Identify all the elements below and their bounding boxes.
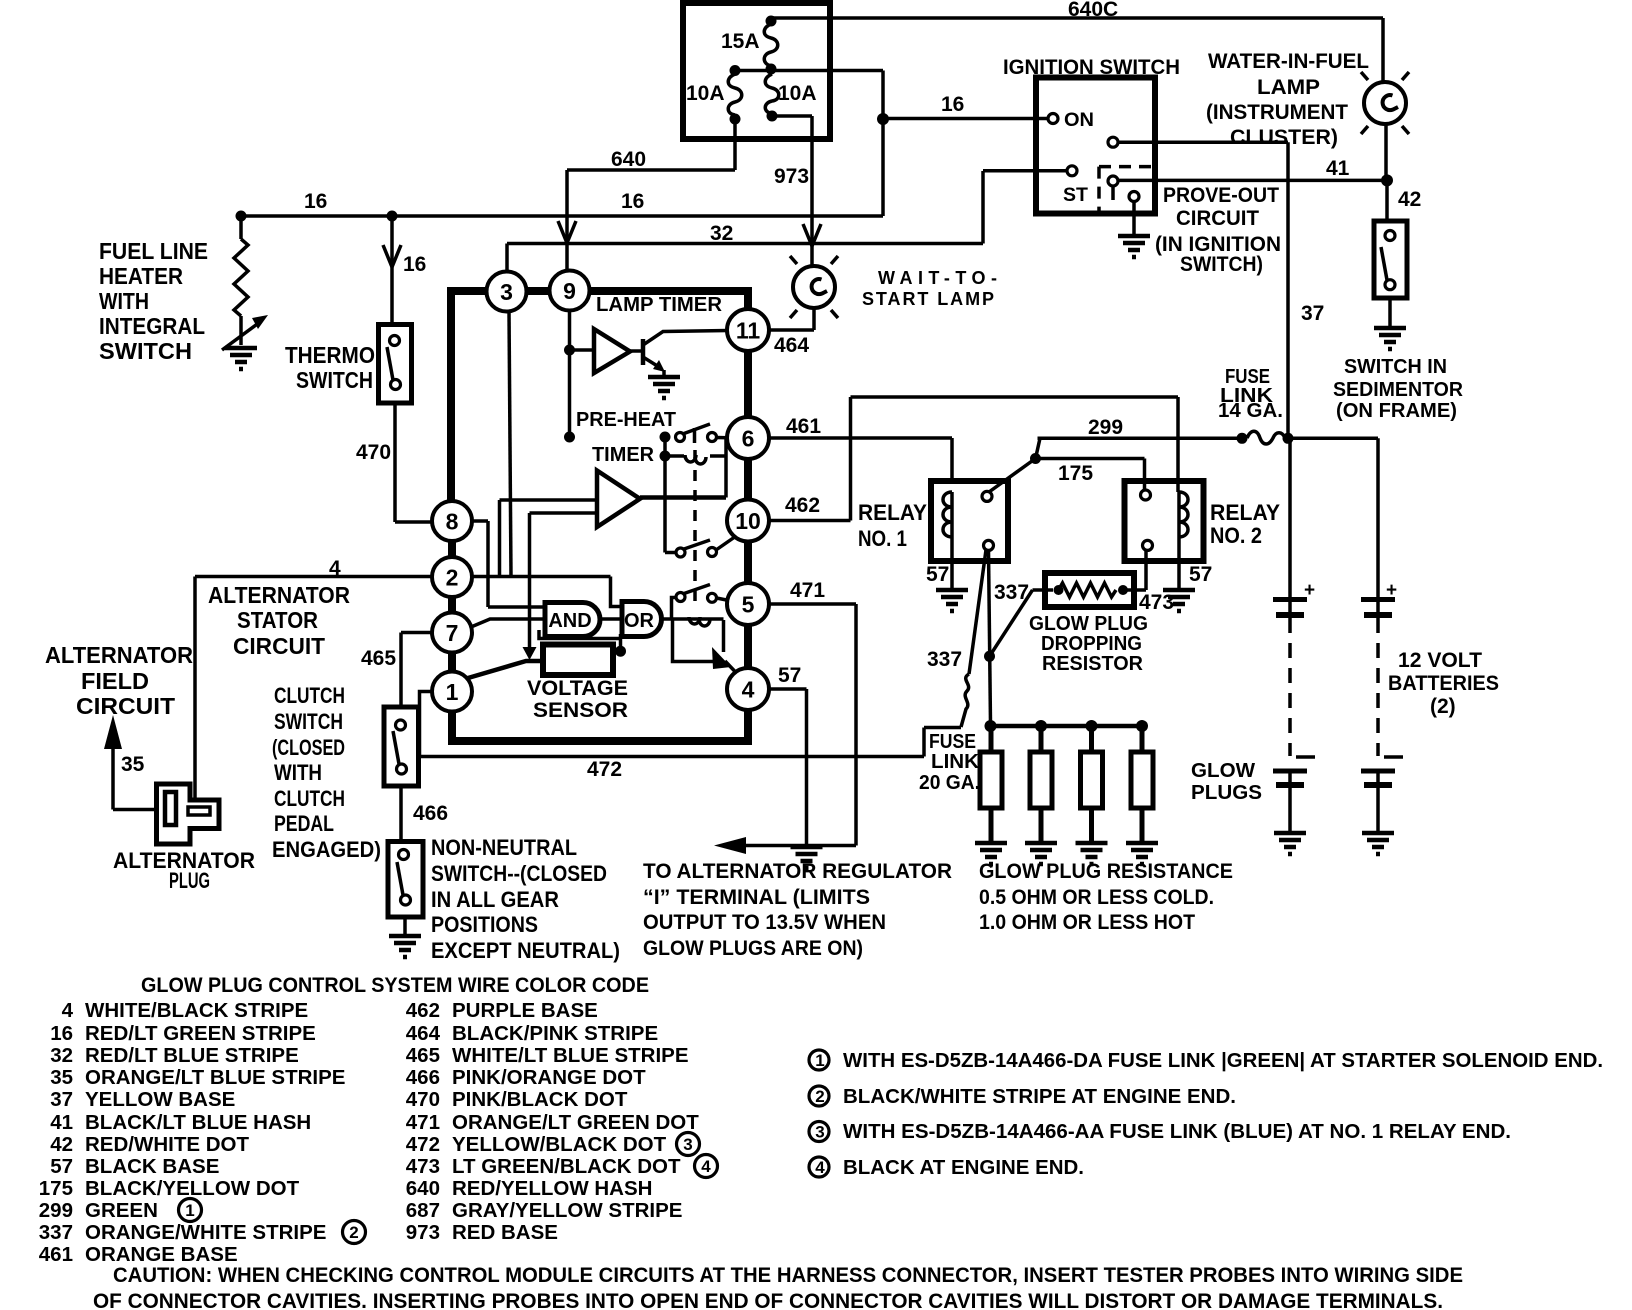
svg-text:FUSE: FUSE bbox=[929, 731, 976, 753]
svg-text:GLOW PLUG RESISTANCE: GLOW PLUG RESISTANCE bbox=[979, 860, 1233, 883]
svg-text:SWITCH: SWITCH bbox=[99, 338, 192, 364]
svg-text:THERMO: THERMO bbox=[285, 342, 375, 368]
svg-text:3: 3 bbox=[500, 279, 513, 305]
svg-text:RED/WHITE DOT: RED/WHITE DOT bbox=[85, 1133, 249, 1156]
svg-text:14 GA.: 14 GA. bbox=[1218, 400, 1283, 422]
svg-text:11: 11 bbox=[736, 318, 761, 344]
svg-text:PINK/ORANGE DOT: PINK/ORANGE DOT bbox=[452, 1066, 646, 1089]
svg-text:BLACK/LT BLUE HASH: BLACK/LT BLUE HASH bbox=[85, 1111, 311, 1134]
svg-text:16: 16 bbox=[403, 253, 426, 276]
svg-text:(INSTRUMENT: (INSTRUMENT bbox=[1206, 100, 1348, 124]
svg-text:EXCEPT NEUTRAL): EXCEPT NEUTRAL) bbox=[431, 938, 620, 963]
svg-text:IGNITION SWITCH: IGNITION SWITCH bbox=[1003, 55, 1180, 79]
svg-text:10A: 10A bbox=[778, 82, 817, 105]
svg-text:2: 2 bbox=[446, 565, 459, 591]
svg-text:YELLOW BASE: YELLOW BASE bbox=[85, 1088, 235, 1111]
svg-text:RED/LT GREEN STRIPE: RED/LT GREEN STRIPE bbox=[85, 1022, 316, 1045]
svg-text:0.5 OHM OR LESS COLD.: 0.5 OHM OR LESS COLD. bbox=[979, 886, 1214, 909]
svg-text:973: 973 bbox=[406, 1221, 440, 1244]
svg-text:START LAMP: START LAMP bbox=[862, 289, 994, 309]
svg-text:42: 42 bbox=[1398, 188, 1421, 211]
svg-text:299: 299 bbox=[39, 1199, 73, 1222]
svg-text:DROPPING: DROPPING bbox=[1041, 633, 1142, 655]
svg-text:PURPLE BASE: PURPLE BASE bbox=[452, 999, 598, 1022]
svg-text:SENSOR: SENSOR bbox=[533, 699, 628, 722]
svg-text:337: 337 bbox=[994, 581, 1029, 604]
svg-text:LINK: LINK bbox=[931, 751, 980, 773]
svg-text:FIELD: FIELD bbox=[81, 668, 149, 694]
svg-text:OR: OR bbox=[624, 610, 655, 632]
svg-text:GLOW PLUG: GLOW PLUG bbox=[1029, 613, 1148, 635]
svg-text:12 VOLT: 12 VOLT bbox=[1398, 649, 1482, 672]
svg-text:RED/YELLOW HASH: RED/YELLOW HASH bbox=[452, 1177, 652, 1200]
svg-text:VOLTAGE: VOLTAGE bbox=[527, 677, 628, 700]
svg-text:TO ALTERNATOR REGULATOR: TO ALTERNATOR REGULATOR bbox=[643, 860, 952, 883]
svg-text:BATTERIES: BATTERIES bbox=[1388, 672, 1499, 695]
svg-text:7: 7 bbox=[446, 620, 459, 646]
svg-text:470: 470 bbox=[356, 441, 391, 464]
svg-text:RESISTOR: RESISTOR bbox=[1042, 653, 1144, 675]
svg-text:640: 640 bbox=[611, 148, 646, 171]
svg-text:471: 471 bbox=[790, 579, 825, 602]
svg-text:PLUG: PLUG bbox=[169, 868, 210, 893]
svg-text:337: 337 bbox=[39, 1221, 73, 1244]
svg-text:175: 175 bbox=[1058, 462, 1093, 485]
svg-text:CIRCUIT: CIRCUIT bbox=[1176, 206, 1259, 230]
svg-text:464: 464 bbox=[406, 1022, 441, 1045]
svg-text:LAMP: LAMP bbox=[1257, 75, 1320, 99]
svg-text:RELAY: RELAY bbox=[1210, 500, 1280, 525]
svg-text:472: 472 bbox=[587, 758, 622, 781]
svg-text:470: 470 bbox=[406, 1088, 440, 1111]
svg-text:IN ALL GEAR: IN ALL GEAR bbox=[431, 887, 559, 912]
svg-text:175: 175 bbox=[39, 1177, 73, 1200]
svg-text:464: 464 bbox=[774, 334, 809, 357]
svg-text:HEATER: HEATER bbox=[99, 263, 183, 289]
svg-text:16: 16 bbox=[50, 1022, 73, 1045]
svg-text:2: 2 bbox=[349, 1223, 358, 1242]
svg-text:462: 462 bbox=[406, 999, 440, 1022]
svg-text:2: 2 bbox=[815, 1087, 824, 1106]
svg-text:SWITCH: SWITCH bbox=[296, 367, 373, 393]
svg-text:POSITIONS: POSITIONS bbox=[431, 912, 538, 937]
svg-text:BLACK/PINK STRIPE: BLACK/PINK STRIPE bbox=[452, 1022, 658, 1045]
svg-text:ON: ON bbox=[1064, 109, 1094, 131]
svg-text:10A: 10A bbox=[686, 82, 725, 105]
svg-text:3: 3 bbox=[815, 1123, 824, 1142]
svg-text:640C: 640C bbox=[1068, 0, 1118, 21]
svg-text:57: 57 bbox=[50, 1155, 73, 1178]
svg-text:337: 337 bbox=[927, 648, 962, 671]
svg-text:465: 465 bbox=[406, 1044, 440, 1067]
svg-text:1: 1 bbox=[446, 679, 459, 705]
svg-text:32: 32 bbox=[50, 1044, 73, 1067]
svg-text:4: 4 bbox=[62, 999, 74, 1022]
svg-text:(CLOSED: (CLOSED bbox=[272, 735, 345, 760]
svg-text:WHITE/LT BLUE STRIPE: WHITE/LT BLUE STRIPE bbox=[452, 1044, 689, 1067]
svg-text:(2): (2) bbox=[1430, 695, 1456, 718]
svg-text:4: 4 bbox=[701, 1157, 711, 1176]
svg-text:WHITE/BLACK STRIPE: WHITE/BLACK STRIPE bbox=[85, 999, 308, 1022]
svg-text:32: 32 bbox=[710, 222, 733, 245]
svg-text:41: 41 bbox=[1326, 157, 1350, 180]
svg-text:ORANGE BASE: ORANGE BASE bbox=[85, 1243, 238, 1266]
svg-text:35: 35 bbox=[50, 1066, 73, 1089]
svg-text:CIRCUIT: CIRCUIT bbox=[76, 693, 175, 719]
svg-text:SWITCH): SWITCH) bbox=[1180, 252, 1263, 276]
svg-text:SWITCH--(CLOSED: SWITCH--(CLOSED bbox=[431, 861, 607, 886]
svg-text:4: 4 bbox=[329, 557, 341, 580]
svg-text:465: 465 bbox=[361, 647, 396, 670]
svg-text:GLOW PLUG CONTROL SYSTEM WIRE: GLOW PLUG CONTROL SYSTEM WIRE COLOR CODE bbox=[141, 974, 649, 997]
svg-text:OUTPUT TO 13.5V WHEN: OUTPUT TO 13.5V WHEN bbox=[643, 911, 886, 934]
svg-text:4: 4 bbox=[742, 677, 755, 703]
svg-text:1: 1 bbox=[185, 1201, 194, 1220]
svg-text:“I” TERMINAL (LIMITS: “I” TERMINAL (LIMITS bbox=[643, 886, 870, 909]
svg-text:ALTERNATOR: ALTERNATOR bbox=[45, 642, 193, 668]
svg-text:299: 299 bbox=[1088, 416, 1123, 439]
svg-text:640: 640 bbox=[406, 1177, 440, 1200]
svg-text:973: 973 bbox=[774, 165, 809, 188]
svg-text:37: 37 bbox=[1301, 302, 1324, 325]
svg-text:YELLOW/BLACK DOT: YELLOW/BLACK DOT bbox=[452, 1133, 667, 1156]
svg-text:15A: 15A bbox=[721, 30, 760, 53]
svg-text:CLUSTER): CLUSTER) bbox=[1230, 125, 1338, 149]
svg-text:472: 472 bbox=[406, 1133, 440, 1156]
svg-text:ORANGE/LT GREEN DOT: ORANGE/LT GREEN DOT bbox=[452, 1111, 699, 1134]
svg-text:WITH: WITH bbox=[274, 760, 322, 785]
svg-text:BLACK BASE: BLACK BASE bbox=[85, 1155, 219, 1178]
svg-text:WATER-IN-FUEL: WATER-IN-FUEL bbox=[1208, 49, 1369, 73]
svg-text:1.0 OHM OR LESS HOT: 1.0 OHM OR LESS HOT bbox=[979, 911, 1195, 934]
svg-text:10: 10 bbox=[735, 508, 761, 534]
svg-text:4: 4 bbox=[815, 1158, 825, 1177]
svg-text:57: 57 bbox=[926, 563, 949, 586]
svg-text:RED/LT BLUE STRIPE: RED/LT BLUE STRIPE bbox=[85, 1044, 299, 1067]
svg-text:462: 462 bbox=[785, 494, 820, 517]
svg-text:42: 42 bbox=[50, 1133, 73, 1156]
svg-text:CAUTION: WHEN CHECKING CONTROL: CAUTION: WHEN CHECKING CONTROL MODULE CI… bbox=[113, 1264, 1463, 1287]
svg-text:37: 37 bbox=[50, 1088, 73, 1111]
svg-text:GLOW: GLOW bbox=[1191, 760, 1255, 782]
svg-text:473: 473 bbox=[1139, 591, 1174, 614]
svg-text:41: 41 bbox=[50, 1111, 73, 1134]
svg-text:ALTERNATOR: ALTERNATOR bbox=[208, 582, 350, 608]
svg-text:ST: ST bbox=[1063, 184, 1088, 206]
svg-text:LAMP TIMER: LAMP TIMER bbox=[596, 294, 723, 316]
svg-text:PINK/BLACK DOT: PINK/BLACK DOT bbox=[452, 1088, 628, 1111]
svg-text:WITH ES-D5ZB-14A466-DA FUSE LI: WITH ES-D5ZB-14A466-DA FUSE LINK |GREEN|… bbox=[843, 1049, 1603, 1072]
svg-text:461: 461 bbox=[39, 1243, 73, 1266]
svg-text:CLUTCH: CLUTCH bbox=[274, 786, 345, 811]
svg-text:GREEN: GREEN bbox=[85, 1199, 158, 1222]
svg-text:466: 466 bbox=[413, 802, 448, 825]
svg-text:STATOR: STATOR bbox=[237, 607, 318, 633]
svg-text:6: 6 bbox=[742, 426, 755, 452]
svg-text:NO. 1: NO. 1 bbox=[858, 526, 907, 551]
svg-text:PEDAL: PEDAL bbox=[274, 811, 334, 836]
svg-text:WITH: WITH bbox=[99, 288, 149, 314]
svg-text:PRE-HEAT: PRE-HEAT bbox=[576, 409, 676, 431]
svg-text:BLACK/YELLOW DOT: BLACK/YELLOW DOT bbox=[85, 1177, 300, 1200]
svg-text:461: 461 bbox=[786, 415, 821, 438]
svg-text:BLACK AT ENGINE END.: BLACK AT ENGINE END. bbox=[843, 1156, 1084, 1179]
svg-text:(ON FRAME): (ON FRAME) bbox=[1336, 400, 1457, 422]
svg-text:SWITCH: SWITCH bbox=[274, 709, 343, 734]
svg-text:ORANGE/LT BLUE STRIPE: ORANGE/LT BLUE STRIPE bbox=[85, 1066, 345, 1089]
svg-text:+: + bbox=[1304, 580, 1315, 601]
svg-text:RELAY: RELAY bbox=[858, 500, 927, 525]
svg-text:BLACK/WHITE STRIPE AT ENGINE E: BLACK/WHITE STRIPE AT ENGINE END. bbox=[843, 1085, 1236, 1108]
svg-text:687: 687 bbox=[406, 1199, 440, 1222]
svg-text:35: 35 bbox=[121, 753, 145, 776]
svg-text:GRAY/YELLOW STRIPE: GRAY/YELLOW STRIPE bbox=[452, 1199, 682, 1222]
svg-text:+: + bbox=[1386, 580, 1397, 601]
svg-text:WAIT-TO-: WAIT-TO- bbox=[878, 268, 997, 288]
svg-text:16: 16 bbox=[941, 93, 964, 116]
svg-text:LT GREEN/BLACK DOT: LT GREEN/BLACK DOT bbox=[452, 1155, 681, 1178]
svg-text:471: 471 bbox=[406, 1111, 440, 1134]
svg-text:PLUGS: PLUGS bbox=[1191, 782, 1262, 804]
svg-text:57: 57 bbox=[1189, 563, 1212, 586]
svg-text:SWITCH IN: SWITCH IN bbox=[1344, 356, 1447, 378]
svg-text:AND: AND bbox=[548, 610, 591, 632]
svg-text:20 GA.: 20 GA. bbox=[919, 772, 980, 794]
svg-text:9: 9 bbox=[563, 278, 576, 304]
svg-text:RED BASE: RED BASE bbox=[452, 1221, 558, 1244]
svg-text:CIRCUIT: CIRCUIT bbox=[233, 633, 325, 659]
svg-text:ENGAGED): ENGAGED) bbox=[272, 837, 381, 862]
svg-text:SEDIMENTOR: SEDIMENTOR bbox=[1333, 379, 1464, 401]
svg-text:FUEL LINE: FUEL LINE bbox=[99, 238, 208, 264]
svg-text:16: 16 bbox=[621, 190, 644, 213]
svg-text:PROVE-OUT: PROVE-OUT bbox=[1163, 183, 1279, 207]
svg-text:CLUTCH: CLUTCH bbox=[274, 683, 345, 708]
svg-text:16: 16 bbox=[304, 190, 327, 213]
svg-text:8: 8 bbox=[446, 509, 459, 535]
svg-text:473: 473 bbox=[406, 1155, 440, 1178]
svg-text:466: 466 bbox=[406, 1066, 440, 1089]
svg-text:ORANGE/WHITE STRIPE: ORANGE/WHITE STRIPE bbox=[85, 1221, 326, 1244]
svg-text:NON-NEUTRAL: NON-NEUTRAL bbox=[431, 835, 577, 860]
svg-text:OF CONNECTOR CAVITIES. INSERTI: OF CONNECTOR CAVITIES. INSERTING PROBES … bbox=[93, 1290, 1443, 1310]
svg-text:GLOW PLUGS ARE ON): GLOW PLUGS ARE ON) bbox=[643, 937, 863, 960]
svg-text:3: 3 bbox=[683, 1135, 692, 1154]
svg-text:INTEGRAL: INTEGRAL bbox=[99, 313, 205, 339]
svg-text:5: 5 bbox=[742, 592, 755, 618]
svg-text:1: 1 bbox=[815, 1051, 824, 1070]
svg-text:TIMER: TIMER bbox=[592, 444, 655, 466]
svg-text:NO. 2: NO. 2 bbox=[1210, 523, 1262, 548]
svg-text:WITH ES-D5ZB-14A466-AA FUSE LI: WITH ES-D5ZB-14A466-AA FUSE LINK (BLUE) … bbox=[843, 1120, 1511, 1143]
svg-text:57: 57 bbox=[778, 664, 801, 687]
